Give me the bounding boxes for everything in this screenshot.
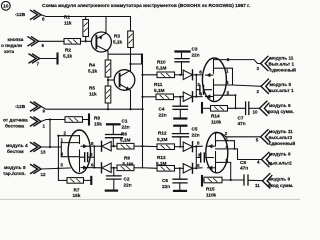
wire Q2 collector riser — [130, 64, 132, 71]
wire U2 pin4 to X2 — [226, 85, 261, 86]
svg-text:22n: 22n — [192, 133, 200, 138]
diode VD4 — [183, 92, 202, 102]
ground bar R8 — [88, 115, 90, 125]
scan edge artifact bottom — [0, 198, 300, 201]
wire U1 pin8 row to diode — [90, 145, 101, 147]
svg-text:C5: C5 — [192, 127, 198, 132]
wire X12 to U1 pin5 — [41, 168, 70, 169]
diode VD5 — [183, 142, 202, 152]
svg-text:R10: R10 — [157, 60, 166, 65]
capacitor C4 — [159, 97, 188, 119]
connector X1 sensor input — [3, 117, 46, 129]
svg-text:11: 11 — [255, 183, 260, 188]
resistor R12 — [143, 131, 184, 150]
svg-text:модуль 11: модуль 11 — [270, 56, 294, 61]
wire Q1 collector down — [107, 51, 109, 54]
wire -12V rail — [41, 15, 130, 17]
svg-text:22n: 22n — [162, 184, 170, 189]
svg-text:5,1k: 5,1k — [113, 40, 123, 45]
resistor R15 — [203, 177, 244, 197]
svg-text:5,1M: 5,1M — [157, 137, 168, 142]
svg-text:22n: 22n — [192, 53, 200, 58]
ground bar R15 — [201, 176, 203, 186]
junction C1 row1 — [113, 145, 115, 147]
svg-text:вход сумм.: вход сумм. — [268, 109, 294, 114]
svg-text:R1: R1 — [64, 15, 70, 20]
svg-text:R2: R2 — [65, 48, 71, 53]
svg-text:22n: 22n — [124, 183, 132, 188]
wire Q1 emitter to rail — [105, 17, 107, 34]
svg-text:бестом: бестом — [7, 148, 24, 154]
svg-text:C8: C8 — [240, 160, 246, 165]
junction C2 row2 — [113, 167, 115, 169]
resistor R11 — [143, 82, 184, 100]
resistor R7 — [58, 178, 90, 199]
wire branch down to X13 net — [49, 120, 51, 148]
ground bar R14 — [201, 103, 203, 113]
svg-text:22n: 22n — [159, 113, 167, 118]
capacitor C8 — [240, 160, 262, 185]
svg-text:Вых.альт 1: Вых.альт 1 — [269, 62, 295, 67]
junction R14 C7 pin5 — [234, 107, 236, 109]
junction C4 row — [179, 96, 181, 98]
junction bus rail2 — [141, 108, 143, 110]
resistor R8 — [65, 116, 102, 127]
svg-text:C4: C4 — [159, 107, 165, 112]
capacitor C3 — [175, 47, 200, 75]
junction X12 branch — [57, 167, 59, 169]
svg-text:модуль 9: модуль 9 — [269, 176, 291, 181]
svg-text:110k: 110k — [211, 120, 222, 125]
connector X11 output — [255, 174, 293, 188]
resistor R1 — [64, 15, 89, 42]
svg-text:сдвоенный: сдвоенный — [270, 67, 297, 73]
svg-text:модуль 9: модуль 9 — [269, 103, 291, 108]
resistor R2 — [63, 39, 91, 59]
junction C3 row — [179, 74, 181, 76]
svg-text:5,1M: 5,1M — [120, 138, 131, 143]
svg-text:R13: R13 — [157, 155, 166, 160]
svg-text:15k: 15k — [94, 122, 102, 127]
svg-text:5,1k: 5,1k — [63, 54, 73, 59]
transistor Q1 (PNP) — [91, 32, 111, 52]
connector X8 -12V input — [15, 10, 45, 21]
svg-text:12: 12 — [41, 172, 47, 177]
capacitor C2 — [106, 168, 132, 191]
svg-text:модуль 6: модуль 6 — [269, 152, 291, 157]
junction X13 branch — [49, 146, 51, 148]
wire R3 bottom to bus elbow — [131, 54, 142, 64]
junction gate tie top — [195, 74, 197, 76]
svg-text:от датчика: от датчика — [3, 118, 28, 123]
wire U2 pin5 elbow down — [226, 95, 235, 108]
svg-text:тар./клоп.: тар./клоп. — [3, 171, 26, 176]
junction gate tie bottom oval — [195, 145, 197, 147]
svg-text:22n: 22n — [122, 125, 130, 130]
capacitor C5 — [173, 126, 200, 147]
connector X6 button input label — [1, 37, 45, 54]
svg-text:Схема модуля электронного комм: Схема модуля электронного коммутатора ин… — [42, 3, 250, 9]
svg-text:о педали: о педали — [1, 43, 22, 48]
sheet number badge 10 — [1, 1, 10, 10]
ground bar R7 — [90, 177, 92, 184]
svg-text:сдвоенный: сдвоенный — [269, 140, 296, 146]
diode VD3 — [183, 70, 202, 80]
node R3 bottom elbow — [129, 63, 131, 65]
resistor R6 — [117, 132, 143, 150]
wire U3 pin5 elbow down — [228, 162, 231, 180]
wire U3 pin4 to X4 — [228, 149, 262, 160]
svg-text:5,1M: 5,1M — [156, 66, 167, 71]
bus vertical control line — [142, 54, 144, 168]
svg-text:R14: R14 — [211, 114, 220, 119]
svg-text:вход сумм.: вход сумм. — [268, 183, 294, 188]
svg-text:модуль 8: модуль 8 — [4, 165, 26, 170]
svg-text:11k: 11k — [64, 21, 72, 26]
junction bus row R6 — [141, 145, 143, 147]
resistor R10 — [143, 60, 184, 78]
diode VD2 — [102, 163, 118, 173]
connector X3 output — [257, 56, 297, 73]
wire base R4R5 to Q2 — [108, 79, 114, 81]
svg-text:13: 13 — [41, 150, 47, 155]
svg-text:C3: C3 — [192, 47, 198, 52]
connector X7 ground pin — [29, 54, 40, 67]
wire U1 pin1 row — [61, 142, 79, 144]
wire X13 to oval U1 pin1/4 — [41, 146, 61, 148]
wire U3 gate tie vertical — [195, 146, 197, 168]
diode VD1 — [102, 141, 118, 151]
svg-text:47n: 47n — [238, 121, 246, 126]
svg-text:-12В: -12В — [15, 12, 26, 17]
wire collector node to bus — [108, 53, 143, 55]
wire U1 pin4 row — [61, 156, 79, 158]
svg-text:C1: C1 — [122, 119, 128, 124]
analog switch U2 dual FET oval top — [196, 58, 226, 102]
svg-text:11k: 11k — [89, 92, 97, 97]
resistor R9 — [117, 156, 143, 171]
wire button to R2 — [39, 40, 64, 42]
wire U3 pin2 to X5 — [216, 133, 261, 137]
wire -12V rail2 — [41, 107, 142, 110]
svg-text:C6: C6 — [162, 178, 168, 183]
svg-text:вых.альт 1: вых.альт 1 — [269, 88, 294, 93]
junction bus row R10 — [141, 74, 143, 76]
junction bus row R11 — [141, 96, 143, 98]
wire U2 pin2 to X3 — [214, 60, 261, 64]
svg-text:R12: R12 — [158, 131, 167, 136]
connector X13 module4 input — [6, 143, 46, 155]
svg-text:R7: R7 — [74, 188, 80, 193]
svg-text:5,1M: 5,1M — [123, 162, 134, 167]
wire pins 1-4 tie vertical — [60, 143, 62, 157]
diode VD6 — [183, 163, 202, 173]
svg-text:хета: хета — [4, 49, 14, 54]
capacitor C6 — [162, 168, 187, 191]
resistor R5 — [89, 77, 111, 109]
connector X12 module8 input — [3, 165, 46, 178]
svg-text:C7: C7 — [238, 116, 244, 121]
resistor R13 — [143, 155, 184, 171]
svg-text:10: 10 — [253, 110, 259, 115]
svg-text:10: 10 — [3, 4, 9, 10]
junction R15 C8 pin5 — [230, 179, 232, 181]
svg-text:модуль 11: модуль 11 — [269, 129, 293, 134]
resistor R3 — [113, 17, 133, 65]
svg-text:R11: R11 — [154, 82, 163, 87]
capacitor C1 — [106, 119, 130, 147]
junction Q2 emitter rail2 — [129, 108, 131, 110]
svg-text:бестома: бестома — [5, 123, 24, 129]
wire U2 pin1 elbow — [226, 68, 232, 85]
transistor Q2 (NPN) — [114, 70, 135, 91]
svg-text:C2: C2 — [124, 177, 130, 182]
svg-text:вых.альт2: вых.альт2 — [269, 135, 293, 140]
connector X4 output — [257, 152, 292, 167]
analog switch U1 dual FET oval — [68, 130, 94, 173]
wire vertical pin2 to pin5 to R7 — [57, 136, 59, 181]
svg-text:R4: R4 — [89, 63, 95, 68]
wire X1 to R8 — [41, 120, 65, 122]
svg-text:R9: R9 — [124, 156, 130, 161]
svg-text:модуль 5: модуль 5 — [270, 82, 292, 87]
svg-text:5,1k: 5,1k — [88, 69, 98, 74]
wire pin7 to chassis bar — [40, 58, 57, 60]
junction X1 branch — [49, 118, 51, 120]
connector X10 output — [253, 101, 294, 115]
wire U1 pin2 row — [58, 135, 79, 137]
svg-text:R8: R8 — [94, 116, 100, 121]
svg-text:47п: 47п — [240, 165, 248, 170]
svg-text:кнопка: кнопка — [8, 37, 24, 42]
analog switch U3 dual FET oval bottom — [196, 132, 228, 173]
svg-text:-12В: -12В — [15, 104, 26, 109]
svg-text:R15: R15 — [206, 187, 215, 192]
junction pin2 branch — [57, 135, 59, 137]
svg-text:вых.альт2: вых.альт2 — [268, 160, 292, 165]
svg-text:110k: 110k — [206, 193, 217, 198]
svg-text:модуль 4: модуль 4 — [6, 143, 28, 148]
svg-text:R5: R5 — [89, 86, 95, 91]
wire U1 gate tie vertical — [93, 146, 95, 167]
wire U3 pin1 elbow — [228, 141, 235, 149]
junction R5 rail2 — [107, 108, 109, 110]
wire U2 gate tie vertical — [195, 75, 197, 97]
svg-text:5,1M: 5,1M — [154, 88, 165, 93]
junction R1 base node — [85, 40, 87, 42]
capacitor C7 — [238, 102, 260, 126]
svg-text:15k: 15k — [73, 193, 81, 198]
junction C6 row — [179, 167, 181, 169]
resistor R4 — [88, 54, 111, 77]
svg-text:R6: R6 — [121, 132, 127, 137]
wire U1 pin6 row to diode — [90, 167, 101, 169]
junction C5 row — [179, 146, 181, 148]
connector X2 output — [257, 79, 294, 94]
node R4 R5 base — [107, 79, 109, 81]
connector X9 -12V input — [15, 102, 46, 114]
svg-text:R3: R3 — [114, 34, 120, 39]
ground bar pin7 — [56, 54, 58, 64]
resistor R14 — [203, 106, 246, 125]
wire Q2 emitter to -12V rail2 — [130, 90, 131, 109]
connector X5 output — [256, 129, 296, 146]
